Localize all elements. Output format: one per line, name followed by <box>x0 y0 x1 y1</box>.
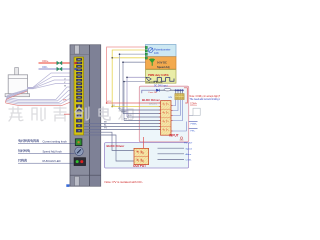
wire DC- <box>39 68 77 70</box>
wire gray L to box1 <box>120 54 146 110</box>
pins to block <box>176 90 183 93</box>
svg-text:VCC: VCC <box>107 101 112 103</box>
svg-text:F/R+: F/R+ <box>191 131 197 133</box>
svg-text:PWM: PWM <box>121 112 127 114</box>
svg-text:PG OUT: PG OUT <box>184 143 193 145</box>
input top wire <box>142 90 156 93</box>
svg-text:BLDC Driver: BLDC Driver <box>142 98 161 102</box>
box1 pins <box>145 46 147 48</box>
driver module body <box>70 45 101 186</box>
terminal block J2 <box>175 94 184 100</box>
red aux wire row <box>64 113 76 115</box>
svg-text:(6N137): (6N137) <box>149 103 157 105</box>
pull-up verticals to chip <box>171 100 186 131</box>
left label row3: 指示灯 / RUN/ALM LED <box>18 159 27 162</box>
red ALM LED <box>80 160 83 163</box>
terminal screws <box>75 58 83 132</box>
OUTPUT panel <box>105 143 189 168</box>
external resistor box <box>193 108 200 115</box>
connector on DC+ <box>57 61 62 65</box>
driver module right strip <box>90 45 101 186</box>
pin dots <box>175 89 177 91</box>
tiny pin labels next to motor wires <box>63 99 67 101</box>
svg-text:DC-: DC- <box>43 65 48 69</box>
wire purple L to box3 <box>127 77 146 117</box>
svg-text:Speed: Speed <box>186 148 193 150</box>
green RUN LED <box>76 160 79 163</box>
optocoupler chip U1 <box>161 101 171 136</box>
diode D1 <box>156 89 159 92</box>
driver module top seam <box>70 54 90 56</box>
svg-text:Note: PV is isolated with DC-: Note: PV is isolated with DC- <box>105 180 143 184</box>
connector on DC- <box>57 67 62 71</box>
tiny logo mark <box>180 137 184 140</box>
svg-text:MR: MR <box>63 99 67 101</box>
motor M1 body <box>8 75 27 94</box>
svg-text:EN: EN <box>124 119 127 121</box>
box1 potentiometer icon <box>148 48 154 53</box>
svg-text:DC+: DC+ <box>43 59 49 63</box>
svg-text:PWM+: PWM+ <box>191 124 198 126</box>
red wire to output chip <box>142 137 144 148</box>
motor cable wires fanning to terminal block <box>5 73 76 105</box>
svg-text:F/R: F/R <box>128 115 132 117</box>
svg-text:OUTPUT: OUTPUT <box>133 164 146 168</box>
tiny wire labels <box>107 101 112 103</box>
left label row2: 调速旋钮 / Speed Adj Knob <box>18 149 29 152</box>
wire yellow branch to box2 <box>112 57 145 59</box>
svg-text:Control Mode: Control Mode <box>146 81 163 84</box>
driver module bottom seam <box>70 174 101 176</box>
box3 waveform <box>154 78 175 82</box>
box1 Potentiometer <box>146 45 177 57</box>
svg-text:BLDC Driver: BLDC Driver <box>107 144 126 148</box>
svg-text:24V: 24V <box>168 97 172 99</box>
speed adjust knob <box>75 147 83 155</box>
fuse F1 oval <box>160 89 165 91</box>
svg-text:PG: PG <box>104 128 107 130</box>
terminal block TB1 <box>74 57 84 135</box>
driver module bottom notch <box>75 176 80 185</box>
driver module seam <box>89 45 91 186</box>
svg-text:INPUT: INPUT <box>169 134 179 138</box>
current setting knob (green square) <box>75 139 82 146</box>
blue tick bottom-left <box>66 184 69 187</box>
wire yellow L to box1 <box>112 50 145 107</box>
watermark overlay chars on module <box>75 107 110 120</box>
wire red L to box1 <box>107 47 146 103</box>
INPUT panel <box>139 86 188 142</box>
LED window <box>74 158 86 166</box>
motor M1 shaft <box>15 68 19 76</box>
box3 input symbol <box>146 77 151 80</box>
wires into INPUT panel left pins <box>107 103 161 121</box>
wire navy2 L to box3 <box>124 82 146 121</box>
svg-text:COM-: COM- <box>186 160 192 162</box>
chip pin stubs <box>159 103 173 131</box>
svg-text:COM+: COM+ <box>190 102 198 105</box>
left label row1: 电流设定电位器 / Current setting knob <box>19 139 39 142</box>
output chip U2 <box>134 148 149 164</box>
output right wires <box>158 148 185 159</box>
lower signal bundle from driver <box>84 124 161 162</box>
wire navy L to box2 <box>123 62 146 113</box>
box2 0-5V DC Speed Adj <box>146 57 177 69</box>
panel right exits <box>189 121 198 123</box>
watermark 无锡青创电机有限公司 <box>9 107 177 121</box>
box3 PWM duty <box>146 70 177 84</box>
red COM wire <box>184 88 187 103</box>
wire DC+ <box>39 62 77 64</box>
motor M1 base flange <box>5 94 30 97</box>
box2 antenna icon <box>149 59 155 66</box>
driver module top notch <box>75 45 80 54</box>
junction dots <box>119 53 121 55</box>
motor M1 front cap line <box>8 77 27 79</box>
